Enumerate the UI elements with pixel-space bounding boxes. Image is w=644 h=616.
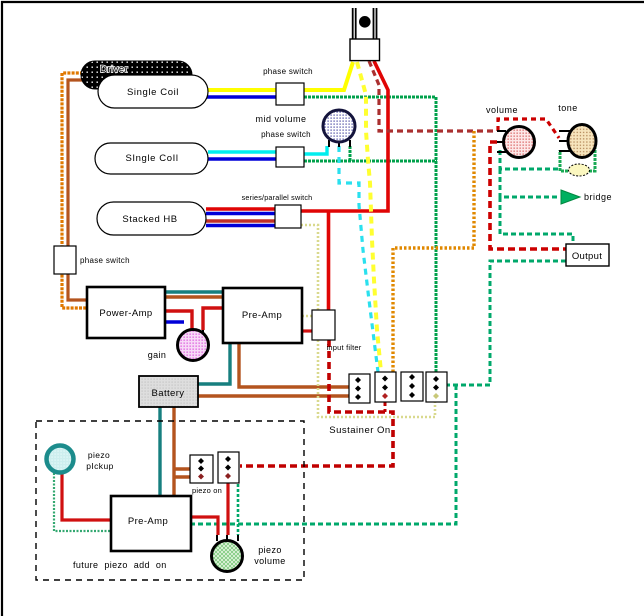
wire: teal Battery to Pre-Amp — [198, 343, 230, 384]
wire: red solid from jack down and left to series/parallel switch, branch to input filter — [301, 61, 388, 310]
piezo switch B — [218, 452, 239, 483]
output box — [566, 244, 609, 266]
wire: green dashed piezo switch B to piezo volume leg — [229, 458, 238, 535]
wire: cyan dashed from mid volume pot to sustainer switch 2 — [339, 146, 378, 372]
svg-text:Driver: Driver — [100, 64, 128, 75]
wire: khaki series/parallel switch down to sustainer switch 4 — [301, 225, 435, 417]
wire: red 2 Stacked HB to series/parallel switch — [206, 219, 275, 222]
svg-text:volume: volume — [486, 105, 518, 115]
jack plug — [350, 8, 380, 61]
piezo volume pot — [212, 535, 286, 572]
tone capacitor — [569, 164, 590, 176]
phase switch 2 — [261, 130, 311, 167]
wire: dark red dashed from jack to volume pot top leg — [369, 61, 497, 131]
power amp box — [87, 287, 165, 338]
wire: blue 1 Stacked HB to series/parallel switch — [206, 212, 275, 215]
wire: green from phase switch 2 to green bus junction — [304, 160, 437, 163]
svg-text:tone: tone — [558, 103, 578, 113]
wire: green stub mid volume pot right leg — [349, 146, 352, 161]
sustainer switch 3 — [401, 372, 423, 401]
sustainer switch 4 — [426, 372, 447, 402]
wire: brown Power-Amp to Pre-Amp — [165, 295, 223, 298]
piezo pre amp box — [111, 496, 191, 551]
bridge arrow — [561, 190, 612, 204]
wire: yellow from Single Coil 1 through phase switch to jack — [205, 62, 353, 90]
svg-text:gain: gain — [148, 350, 167, 360]
wire: teal Power-Amp to Pre-Amp — [165, 290, 223, 293]
svg-text:Pre-Amp: Pre-Amp — [242, 310, 282, 321]
svg-text:series/parallel switch: series/parallel switch — [242, 193, 313, 202]
wire: red piezo switch B to piezo volume leg — [226, 476, 229, 535]
wire: brown Battery down to piezo area and piezo switch A — [174, 407, 190, 496]
svg-text:Battery: Battery — [152, 388, 185, 399]
wire: red dashed volume pot up-and-over to tone pot — [498, 119, 559, 138]
wire: green dashed volume pot to bridge — [500, 169, 559, 197]
wire: blue 2 Stacked HB to series/parallel switch — [206, 224, 275, 227]
driver pickup — [81, 61, 192, 89]
wire: yellow dashed from jack down to sustainer switch 2 — [357, 62, 381, 372]
tone pot — [558, 103, 596, 158]
wire: green dashed volume pot to Output top — [500, 197, 573, 244]
wire: red 1 Stacked HB to series/parallel switch — [206, 207, 275, 210]
wire: blue from Single Coil 1 to phase switch — [205, 95, 276, 98]
svg-text:piezo: piezo — [258, 545, 282, 555]
phase switch 1 — [263, 67, 313, 105]
wire: blue from Single Coil 2 to phase switch 2 — [208, 157, 276, 160]
wire: green from phase switch 1 down to sustainer switch 4 — [304, 97, 436, 372]
wire: cyan from Single Coil 2 to phase switch 2 — [208, 150, 276, 153]
pre amp box — [223, 288, 302, 343]
svg-text:mid volume: mid volume — [255, 114, 306, 124]
single coil pickup 1 — [98, 75, 208, 108]
piezo on label — [192, 486, 222, 495]
svg-text:SIngle CoIl: SIngle CoIl — [125, 153, 178, 164]
wire: orange from Driver down to Power-Amp — [62, 73, 87, 308]
wire: red dashed input filter to sustainer area and piezo switch B — [240, 340, 393, 466]
wire: red Pre-Amp to gain pot leg — [203, 308, 223, 330]
svg-text:piezo: piezo — [88, 450, 110, 460]
phase switch 3 (left) — [54, 246, 130, 274]
svg-text:Single Coil: Single Coil — [127, 87, 179, 98]
wire: brown Pre-Amp to sustainer switch 1 — [239, 343, 349, 387]
svg-text:pIckup: pIckup — [86, 461, 113, 471]
wire: red piezo Pre-Amp to piezo volume leg — [191, 517, 218, 535]
wire: khaki Pre-Amp to input filter — [302, 315, 312, 318]
wire: green dashed junction down to piezo preamp — [191, 385, 456, 524]
wire: orange dotted from volume area down to sustainer switch 2 — [393, 131, 474, 372]
piezo switch A — [190, 455, 213, 483]
volume pot — [486, 105, 535, 158]
svg-text:Power-Amp: Power-Amp — [99, 308, 152, 319]
svg-text:Stacked HB: Stacked HB — [122, 214, 177, 225]
sustainer on label — [329, 425, 390, 436]
svg-text:phase switch: phase switch — [261, 130, 311, 139]
wire: red Pre-Amp to input filter — [302, 329, 312, 332]
single coil pickup 2 — [95, 143, 208, 174]
wire: green solid tone pot ground loop — [560, 142, 595, 171]
input filter box — [312, 310, 362, 352]
gain pot — [148, 330, 209, 361]
wire: cyan from phase switch 2 up to mid volume pot leg — [304, 146, 327, 154]
wire: brown Battery to sustainer switch 1 — [198, 394, 349, 397]
wire: red piezo pickup to piezo Pre-Amp — [62, 473, 111, 520]
wire: green dashed Output to sustainer switch 4 — [447, 261, 566, 385]
wire: green dotted piezo pickup ground to piezo Pre-Amp — [54, 473, 111, 531]
svg-text:future piezo add on: future piezo add on — [73, 560, 167, 570]
svg-text:input filter: input filter — [327, 343, 362, 352]
svg-text:volume: volume — [254, 556, 285, 566]
svg-text:piezo on: piezo on — [192, 486, 222, 495]
wire: red dashed stub sustainer switch 2 bottom pin — [384, 402, 387, 412]
series/parallel switch — [242, 193, 313, 228]
future piezo label — [73, 560, 167, 570]
future piezo dashed box — [36, 421, 304, 580]
battery box — [139, 376, 198, 407]
svg-text:Sustainer On: Sustainer On — [329, 425, 390, 436]
piezo pickup — [47, 446, 114, 473]
sustainer switch 1 — [349, 374, 370, 403]
wire: red dashed volume wiper to Output — [490, 142, 566, 249]
svg-text:Pre-Amp: Pre-Amp — [128, 516, 168, 527]
svg-text:Output: Output — [572, 251, 602, 262]
svg-text:phase switch: phase switch — [80, 256, 130, 265]
stacked humbucker pickup — [97, 202, 206, 235]
wire: brown from Driver down to Power-Amp — [68, 80, 87, 300]
svg-text:bridge: bridge — [584, 192, 612, 202]
sustainer switch 2 — [375, 372, 396, 402]
wire: green dashed volume pot to tone pot — [500, 150, 560, 169]
wire: red Power-Amp to gain pot leg — [165, 311, 192, 330]
svg-text:phase switch: phase switch — [263, 67, 313, 76]
mid volume pot — [255, 110, 355, 147]
wire: blue stub Power-Amp to gain pot — [165, 320, 184, 323]
wire: teal Battery down to piezo Pre-Amp — [158, 407, 161, 496]
